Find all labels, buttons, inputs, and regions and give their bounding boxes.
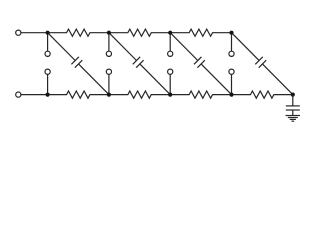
wire (stub up from node B2) [108,74,110,94]
resistor R3 (top rail, section 3) [170,29,231,36]
terminal (tap above node B2) [106,69,111,74]
wire (capacitor C5 to ground) [292,110,294,116]
wire (stub up from node B1) [47,74,49,94]
wire (node B5 down to capacitor C5) [292,95,294,106]
wire (top input to node T1) [21,32,48,34]
wire (stub up from node B4) [231,74,233,94]
capacitor C5 (shunt to ground) [286,106,300,110]
terminal (tap below node T3) [168,51,173,56]
node T1 (junction) [46,31,50,35]
terminal (top-left input port) [16,30,21,35]
wire (stub down from node T3) [169,33,171,52]
resistor R4 (bottom rail, section 1) [48,91,109,98]
resistor R2 (top rail, section 2) [109,29,170,36]
terminal (tap below node T2) [106,51,111,56]
node T2 (junction) [107,31,111,35]
wire (stub up from node B3) [169,74,171,94]
resistor R1 (top rail, section 1) [48,29,109,36]
capacitor C3 (diagonal from T3 to B4) [170,33,231,95]
capacitor C4 (diagonal from T4 to B5) [232,33,293,95]
resistor R6 (bottom rail, section 3) [170,91,231,98]
node B3 (junction) [168,93,172,97]
terminal (tap above node B1) [45,69,50,74]
wire (stub down from node T4) [231,33,233,52]
terminal (tap below node T4) [229,51,234,56]
wire (bottom input to node B1) [21,94,48,96]
node B5 (output junction) [291,93,295,97]
capacitor C1 (diagonal from T1 to B2) [48,33,109,95]
wire (stub down from node T2) [108,33,110,52]
node B4 (junction) [229,93,233,97]
node T4 (junction) [229,31,233,35]
terminal (tap below node T1) [45,51,50,56]
terminal (tap above node B4) [229,69,234,74]
terminal (tap above node B3) [168,69,173,74]
resistor R5 (bottom rail, section 2) [109,91,170,98]
ground [286,116,300,122]
terminal (bottom-left input port) [16,92,21,97]
wire (stub down from node T1) [47,33,49,52]
capacitor C2 (diagonal from T2 to B3) [109,33,170,95]
node T3 (junction) [168,31,172,35]
resistor R7 (bottom rail, section 4) [232,91,293,98]
node B2 (junction) [107,93,111,97]
node B1 (junction) [46,93,50,97]
